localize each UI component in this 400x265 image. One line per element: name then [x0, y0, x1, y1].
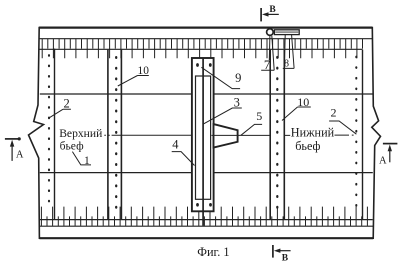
gate outer frame 4	[192, 58, 214, 211]
wire canal line lower	[40, 172, 373, 174]
svg-text:10: 10	[138, 65, 150, 77]
wire leader 4	[172, 152, 195, 166]
wire bottom canal edge	[40, 219, 373, 221]
wire leader 10 right	[282, 107, 311, 121]
svg-text:Нижний: Нижний	[291, 126, 335, 140]
wire leader 10 left	[118, 76, 149, 87]
svg-text:В: В	[269, 5, 276, 15]
svg-text:2: 2	[331, 106, 337, 120]
gate bolt dots	[196, 63, 212, 207]
svg-text:3: 3	[234, 96, 240, 110]
wire top wall line	[39, 38, 372, 40]
node bolts-joint2	[276, 56, 278, 209]
svg-text:8: 8	[284, 58, 289, 69]
wire top canal edge	[39, 48, 363, 50]
wire canal line upper	[40, 93, 373, 95]
gate inner leaf 3	[196, 76, 211, 199]
slope hatching top	[42, 39, 362, 59]
section mark A right	[379, 144, 397, 167]
svg-text:2: 2	[63, 96, 69, 110]
wire left border with break	[29, 27, 44, 239]
svg-text:бьеф: бьеф	[295, 139, 320, 153]
svg-text:А: А	[379, 155, 387, 166]
svg-text:5: 5	[256, 109, 262, 123]
svg-text:9: 9	[235, 71, 241, 85]
wire leader 2 left	[50, 109, 71, 117]
slope hatching bottom	[41, 207, 367, 226]
joint J2 pile row	[270, 50, 284, 220]
svg-text:В: В	[282, 253, 289, 263]
wire leader 2 right	[329, 121, 356, 134]
wire axis dash-dot	[104, 134, 353, 136]
section mark B bottom	[273, 245, 291, 263]
wire leader 7	[261, 36, 274, 71]
wall right headwall	[362, 50, 364, 220]
wire bottom border	[39, 237, 373, 239]
wire right border with break	[372, 27, 381, 239]
node bolts-right	[355, 56, 357, 207]
slot 8	[274, 30, 299, 35]
svg-text:7: 7	[264, 57, 271, 72]
svg-text:4: 4	[172, 137, 179, 151]
float gauge 7	[267, 29, 274, 36]
svg-text:Верхний: Верхний	[59, 127, 102, 140]
wire leader 8	[283, 35, 294, 68]
node bolts-left	[48, 54, 50, 202]
section mark B top	[261, 5, 279, 22]
wire bottom wall line	[39, 225, 373, 227]
wire leader 3	[203, 108, 242, 124]
deflector 5	[214, 124, 238, 148]
node bolts-joint1	[115, 56, 117, 209]
svg-text:1: 1	[84, 155, 90, 167]
wire top border	[39, 27, 372, 29]
wire leader 9	[201, 67, 240, 88]
wire leader 1	[72, 152, 91, 165]
svg-text:А: А	[16, 150, 24, 161]
svg-text:10: 10	[297, 95, 309, 109]
svg-text:бьеф: бьеф	[60, 139, 84, 152]
gate center line	[202, 58, 204, 226]
svg-text:Фиг. 1: Фиг. 1	[197, 245, 229, 259]
section mark A left	[5, 137, 24, 161]
wire leader 5	[241, 124, 262, 135]
wall left headwall	[54, 49, 56, 220]
joint J1 pile row	[108, 50, 122, 220]
